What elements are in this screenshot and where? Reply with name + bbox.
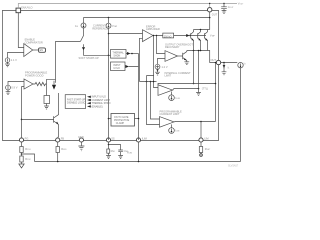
IC package outline (3, 10, 219, 140)
node junction fault line (131, 53, 133, 55)
transistor Q PG open drain (22, 115, 59, 125)
wire EA inverting input from sense (140, 38, 143, 81)
wire load to sense bus (240, 68, 242, 162)
pin ILIM (bottom) (136, 138, 140, 142)
svg-text:SLVSA57: SLVSA57 (228, 165, 239, 168)
svg-text:EN: EN (40, 49, 44, 52)
svg-text:VTAP: VTAP (210, 34, 216, 37)
ground below limit output (196, 89, 201, 96)
voltage reference 1.2V (155, 64, 160, 69)
transistor Q OOR (183, 52, 187, 61)
terminal circle below RSET (200, 153, 202, 154)
ground below GND pin (78, 142, 84, 151)
Q1 emitter arrow (191, 39, 194, 41)
ground below PG threshold (6, 90, 11, 95)
node junction load tap (223, 62, 225, 64)
resistor RNR external (107, 149, 110, 153)
op-amp error amplifier (143, 30, 154, 42)
svg-text:PG: PG (25, 136, 29, 140)
svg-text:ILIM: ILIM (142, 136, 147, 140)
box deglitch (44, 96, 50, 104)
box protective clamp (dashed) (111, 114, 135, 127)
node junction clamp left (108, 118, 110, 120)
pin FB (bottom) (19, 138, 23, 142)
transistor Q2 pass (198, 30, 201, 51)
svg-text:LIMIT: LIMIT (165, 74, 172, 78)
wire reference to comparator input (8, 53, 24, 58)
pin EN (top edge) (16, 8, 21, 13)
svg-text:OUT: OUT (212, 13, 218, 17)
wire resistor to deglitch box (46, 79, 48, 95)
switch soft-start (blade) (80, 28, 83, 42)
svg-text:(TTL): (TTL) (202, 87, 208, 91)
wire clamp left (109, 118, 112, 120)
node junction divider mid (21, 153, 23, 155)
ground below deglitch box (44, 104, 49, 110)
node junction clamp right (138, 118, 140, 120)
pin OUT (top edge) (208, 8, 212, 12)
node junction W2 at 150 (150, 81, 152, 83)
node junction emitter Q1 (193, 50, 195, 52)
box soft start logic (65, 95, 85, 109)
node junction OUT sense (215, 62, 217, 64)
svg-text:RECOVERY: RECOVERY (165, 45, 180, 49)
wire limit comparator output (173, 89, 199, 91)
wire VOUT sense bus (35, 161, 241, 163)
wire PROG pin external (200, 142, 202, 146)
wire FB pin external (21, 142, 23, 146)
transistor Q3 pass (205, 30, 208, 51)
svg-text:COMPARATOR: COMPARATOR (25, 40, 43, 44)
pin GND (bottom) (79, 138, 83, 142)
ground below QOOR (184, 60, 189, 64)
arrow current limit (87, 99, 91, 101)
ground below RNR (106, 153, 111, 158)
wire EA out sense drop (154, 36, 159, 88)
wire SS pin external (108, 142, 110, 149)
svg-text:0.9 V: 0.9 V (11, 86, 17, 90)
node junction cap tap (223, 3, 224, 4)
wire OOR output to QOOR base (178, 55, 183, 57)
wire clamp right (135, 118, 139, 120)
pin PROG (bottom) (199, 138, 203, 142)
wire FB pin riser (22, 87, 25, 139)
current source PG threshold (6, 85, 11, 90)
svg-text:(ENABLE): (ENABLE) (92, 105, 103, 108)
svg-text:LIM: LIM (204, 136, 208, 140)
node junction NR net (108, 144, 110, 146)
op-amp programmable current limit (160, 117, 175, 128)
wire pass base rail (190, 35, 207, 37)
arrow enable (87, 105, 91, 107)
ground for COUT (222, 11, 227, 14)
Q3 emitter arrow (205, 39, 208, 41)
node junction sense tee (215, 83, 217, 85)
node junction emitter Q2 (200, 50, 202, 52)
current source 100uA (169, 95, 175, 101)
current source prog limit (169, 128, 175, 134)
current source current reference (108, 18, 110, 24)
arrow thermal shdn (87, 102, 91, 104)
node junction on top rail (209, 3, 210, 4)
svg-text:POWER GOOD: POWER GOOD (25, 73, 44, 77)
pin SS (bottom) (106, 138, 110, 142)
resistor R1 external (20, 147, 23, 153)
svg-text:CLAMP: CLAMP (116, 122, 125, 125)
svg-text:1.1 V: 1.1 V (11, 58, 17, 62)
wire pass collector rail (194, 29, 210, 31)
wire EN pin into comparator (18, 13, 24, 48)
arrow bias output (125, 65, 129, 68)
node junction VIN rail end (209, 17, 211, 19)
node junction W2 left end (146, 81, 148, 83)
node junction prog limit output (200, 121, 202, 123)
resistor R2 external (20, 156, 23, 162)
wire pass emitter rail (187, 51, 217, 63)
box EN logic tag (39, 48, 46, 52)
node junction limit output (198, 88, 200, 90)
resistor PG pull (zigzag) (33, 82, 47, 85)
ground below reference (5, 62, 10, 66)
svg-text:SS: SS (111, 136, 115, 140)
wire bias to fault line (129, 54, 139, 141)
node junction drive tap (198, 50, 200, 52)
node junction sense bus ILIM (138, 161, 140, 163)
op-amp enable comparator (24, 44, 33, 57)
switch arrow contact (84, 44, 111, 55)
box thermal shutdown (111, 50, 127, 59)
ground below 1.2V (156, 69, 158, 72)
wire EA out to OOR input (157, 36, 166, 54)
svg-text:SHDN: SHDN (113, 55, 120, 58)
load arrow external (223, 63, 225, 66)
svg-text:AMPLIFIER: AMPLIFIER (146, 27, 160, 31)
wire EA output (153, 35, 187, 37)
node junction PG base tap (21, 119, 23, 121)
wire OUT pin external (221, 62, 238, 64)
wire prog limit output (174, 121, 216, 123)
wire thermal to fault line (130, 53, 138, 55)
wire comparator output (33, 49, 39, 51)
resistor R EA (box) (163, 33, 174, 38)
svg-text:UVLO: UVLO (113, 67, 120, 70)
wire sense line W1 (147, 63, 216, 122)
Q PG emitter arrow (56, 122, 59, 125)
op-amp internal current limit (158, 85, 173, 96)
wire PG threshold to comparator (8, 82, 24, 86)
op-amp power good comparator (24, 79, 33, 89)
svg-text:OUT: OUT (211, 58, 217, 62)
svg-text:GND: GND (78, 135, 84, 139)
ground below load arrow (222, 70, 227, 75)
current source reference VEN (5, 58, 10, 63)
node junction sense bus PG (57, 161, 59, 163)
node junction W1 cross (153, 81, 155, 83)
arrow control into logic box (47, 79, 56, 84)
node junction SS/VTAP cross (108, 55, 110, 57)
arrow EA drive (186, 34, 189, 37)
wire VIN top rail (18, 4, 237, 9)
svg-text:DISABLE LOGIC: DISABLE LOGIC (67, 102, 85, 105)
wire sense line W2 (140, 81, 157, 83)
node junction EA reference tap (108, 33, 110, 35)
wire internal VIN rail (84, 17, 210, 19)
current source ISS (81, 23, 86, 28)
node junction rail / current reference (108, 17, 110, 19)
wire prog limit to pin (200, 122, 202, 139)
svg-text:SOFT START-UP: SOFT START-UP (79, 56, 99, 60)
wire QOOR collector to OUT line (186, 51, 188, 52)
node junction OOR tap (156, 35, 157, 36)
wire ILIM pin external (138, 142, 140, 161)
wire divider tap (22, 153, 35, 162)
ground below CNR (118, 156, 123, 159)
wire limit output to pass drive (198, 51, 200, 89)
wire rail corner to SS source (83, 18, 85, 24)
node junction base rail (189, 35, 190, 36)
QOOR emitter arrow (184, 58, 187, 60)
wire Q emitter to PG pin (57, 125, 60, 138)
wire Q collector up (58, 93, 60, 115)
resistor RSET external (199, 147, 202, 153)
arrow input UVLO (87, 96, 91, 98)
svg-text:EN/UVLO: EN/UVLO (21, 6, 32, 10)
node junction on EA out (153, 35, 154, 36)
wire OUT pin down (collector feed) (209, 12, 211, 30)
resistor RPG external (56, 147, 59, 153)
wire OUT pin to top rail (209, 4, 211, 8)
pin PG (bottom) (56, 138, 60, 142)
box bias UVLO (111, 62, 126, 71)
arrow thermal output (126, 53, 127, 55)
Q2 emitter arrow (198, 39, 201, 41)
svg-text:250 kΩ: 250 kΩ (164, 35, 172, 38)
wire PG pin external (57, 142, 59, 161)
node junction collector rail (200, 29, 202, 31)
wire 1.2V to OOR input (158, 59, 166, 65)
current source external load (238, 62, 243, 67)
svg-text:FB: FB (61, 136, 65, 140)
op-amp output overshoot recovery (165, 51, 178, 62)
capacitor CNR external (109, 145, 123, 156)
wire reference into error amplifier (109, 33, 143, 35)
node junction sense drop (193, 83, 195, 85)
svg-text:CURRENT LIMIT: CURRENT LIMIT (160, 112, 180, 116)
ground arrow below divider (21, 162, 23, 164)
capacitor COUT (221, 4, 227, 11)
svg-text:1.2 V: 1.2 V (162, 65, 168, 69)
wire switch to control (56, 42, 81, 80)
transistor Q1 pass (191, 30, 194, 51)
wire prog limit inputs (147, 76, 160, 125)
wire emitter sense drop (193, 51, 195, 84)
